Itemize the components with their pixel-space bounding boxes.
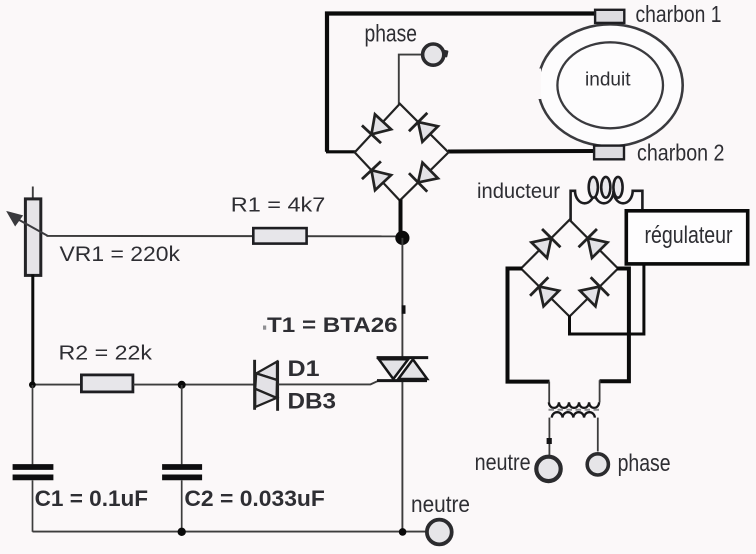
wire secondary right lead — [597, 418, 599, 452]
diac top triangle — [256, 362, 277, 380]
capacitor C1 bottom plate — [13, 474, 54, 480]
wire bridge1 bottom stub — [399, 200, 403, 236]
transformer secondary winding — [552, 412, 595, 417]
capacitor C1 wire bottom — [32, 480, 34, 532]
terminal phase (transformer) — [587, 454, 608, 475]
wire bridge2 left to transformer — [508, 269, 550, 382]
svg-text:induit: induit — [585, 69, 631, 90]
inducteur loop 1 — [589, 177, 598, 198]
svg-text:régulateur: régulateur — [645, 222, 733, 249]
bridge2 diode D-e (top-left) — [531, 238, 551, 258]
diac bottom triangle — [255, 389, 276, 407]
svg-text:T1 = BTA26: T1 = BTA26 — [267, 313, 398, 337]
svg-text:phase: phase — [618, 450, 671, 477]
wire charbon 2 to bridge1 right — [448, 149, 595, 154]
svg-text:DB3: DB3 — [288, 389, 337, 414]
inducteur loop 3 — [613, 177, 622, 198]
node C junction dot — [178, 381, 186, 389]
wire bottom neutre rail — [33, 531, 427, 533]
wire regulateur to bridge2 bottom — [570, 263, 644, 335]
wire triac to neutre — [401, 381, 403, 532]
svg-text:neutre: neutre — [475, 449, 531, 475]
svg-text:D1: D1 — [288, 356, 320, 381]
bridge1 diode D-a (top-left) — [371, 114, 391, 134]
wire bridge2 right to transformer — [600, 269, 629, 382]
capacitor C1 wire top — [32, 385, 34, 464]
wire wiper to node A — [47, 235, 403, 237]
node B junction dot — [29, 381, 36, 388]
artifact tick before T1 — [263, 326, 266, 330]
wire node A down to triac — [401, 238, 403, 357]
triac top bar — [377, 356, 429, 359]
svg-text:C1 = 0.1uF: C1 = 0.1uF — [35, 486, 148, 511]
wire secondary left lead — [548, 418, 550, 456]
triac bottom bar — [377, 379, 427, 382]
tick on vertical wire — [402, 305, 406, 314]
triac right triangle — [398, 359, 427, 379]
capacitor C1 top plate — [13, 464, 54, 470]
bridge2 diamond wires — [521, 220, 618, 317]
terminal phase top — [423, 44, 444, 65]
wire bridge1 left vertex to loop — [326, 150, 356, 153]
wire top loop to charbon 1 — [327, 14, 596, 152]
terminal neutre (transformer) — [536, 457, 560, 481]
bridge2 diode D-h (bottom-right) — [580, 287, 600, 307]
brush charbon 1 — [595, 10, 624, 23]
wire transformer primary right lead — [599, 380, 601, 402]
regulateur box — [626, 211, 747, 264]
svg-text:R2 = 22k: R2 = 22k — [59, 342, 154, 364]
transformer core dashed — [549, 409, 600, 411]
bridge2 diode D-g (bottom-left) — [539, 287, 559, 307]
svg-text:neutre: neutre — [411, 491, 470, 517]
wire node B to R2 — [33, 384, 82, 386]
transformer primary winding — [549, 402, 599, 408]
diac right bar — [276, 361, 279, 411]
svg-text:R1 = 4k7: R1 = 4k7 — [231, 195, 325, 217]
capacitor C2 wire bottom — [181, 480, 183, 532]
capacitor C2 top plate — [162, 464, 202, 470]
VR1 wiper line — [13, 216, 48, 235]
VR1 wiper arrowhead — [8, 212, 22, 225]
node D junction dot — [178, 528, 186, 536]
capacitor C2 bottom plate — [162, 474, 202, 480]
svg-text:phase: phase — [365, 20, 418, 47]
resistor R2 — [81, 375, 132, 392]
bridge1 diode D-b (top-right) — [418, 122, 438, 142]
node A junction dot — [395, 231, 409, 245]
wire phase terminal L — [399, 55, 422, 104]
bridge1 diamond wires — [355, 104, 449, 201]
diac left bar — [253, 360, 256, 410]
svg-text:VR1 = 220k: VR1 = 220k — [60, 242, 181, 266]
wire VR1 top stub — [32, 187, 34, 201]
tick on left lead — [547, 438, 552, 444]
wire transformer primary left lead — [548, 382, 550, 403]
motor outer ellipse — [538, 24, 683, 146]
node E junction dot — [399, 528, 407, 536]
svg-text:charbon 1: charbon 1 — [636, 1, 722, 27]
triac left triangle — [379, 359, 408, 379]
potentiometer VR1 body — [25, 199, 40, 276]
bridge1 diode D-c (bottom-left) — [371, 170, 391, 190]
resistor R1 — [253, 228, 306, 244]
motor inner ellipse — [557, 42, 663, 128]
bridge1 diode D-d (bottom-right) — [418, 163, 438, 183]
inducteur loop 2 — [601, 177, 610, 198]
nub on phase terminal — [443, 50, 449, 58]
motor ellipse gap patch — [530, 69, 541, 100]
wire VR1 bottom — [31, 275, 34, 386]
svg-text:charbon 2: charbon 2 — [637, 140, 725, 166]
terminal neutre (bottom) — [427, 520, 452, 545]
brush charbon 2 — [594, 146, 624, 160]
bridge2 diode D-f (top-right) — [588, 238, 608, 258]
svg-text:C2 = 0.033uF: C2 = 0.033uF — [184, 486, 325, 511]
wire diac to triac gate — [279, 381, 379, 385]
diac middle band — [255, 373, 277, 398]
svg-text:inducteur: inducteur — [477, 180, 560, 203]
capacitor C2 wire top — [181, 385, 183, 464]
wire R2 to node C — [133, 384, 254, 386]
inducteur coil wire+scallops — [571, 191, 643, 222]
